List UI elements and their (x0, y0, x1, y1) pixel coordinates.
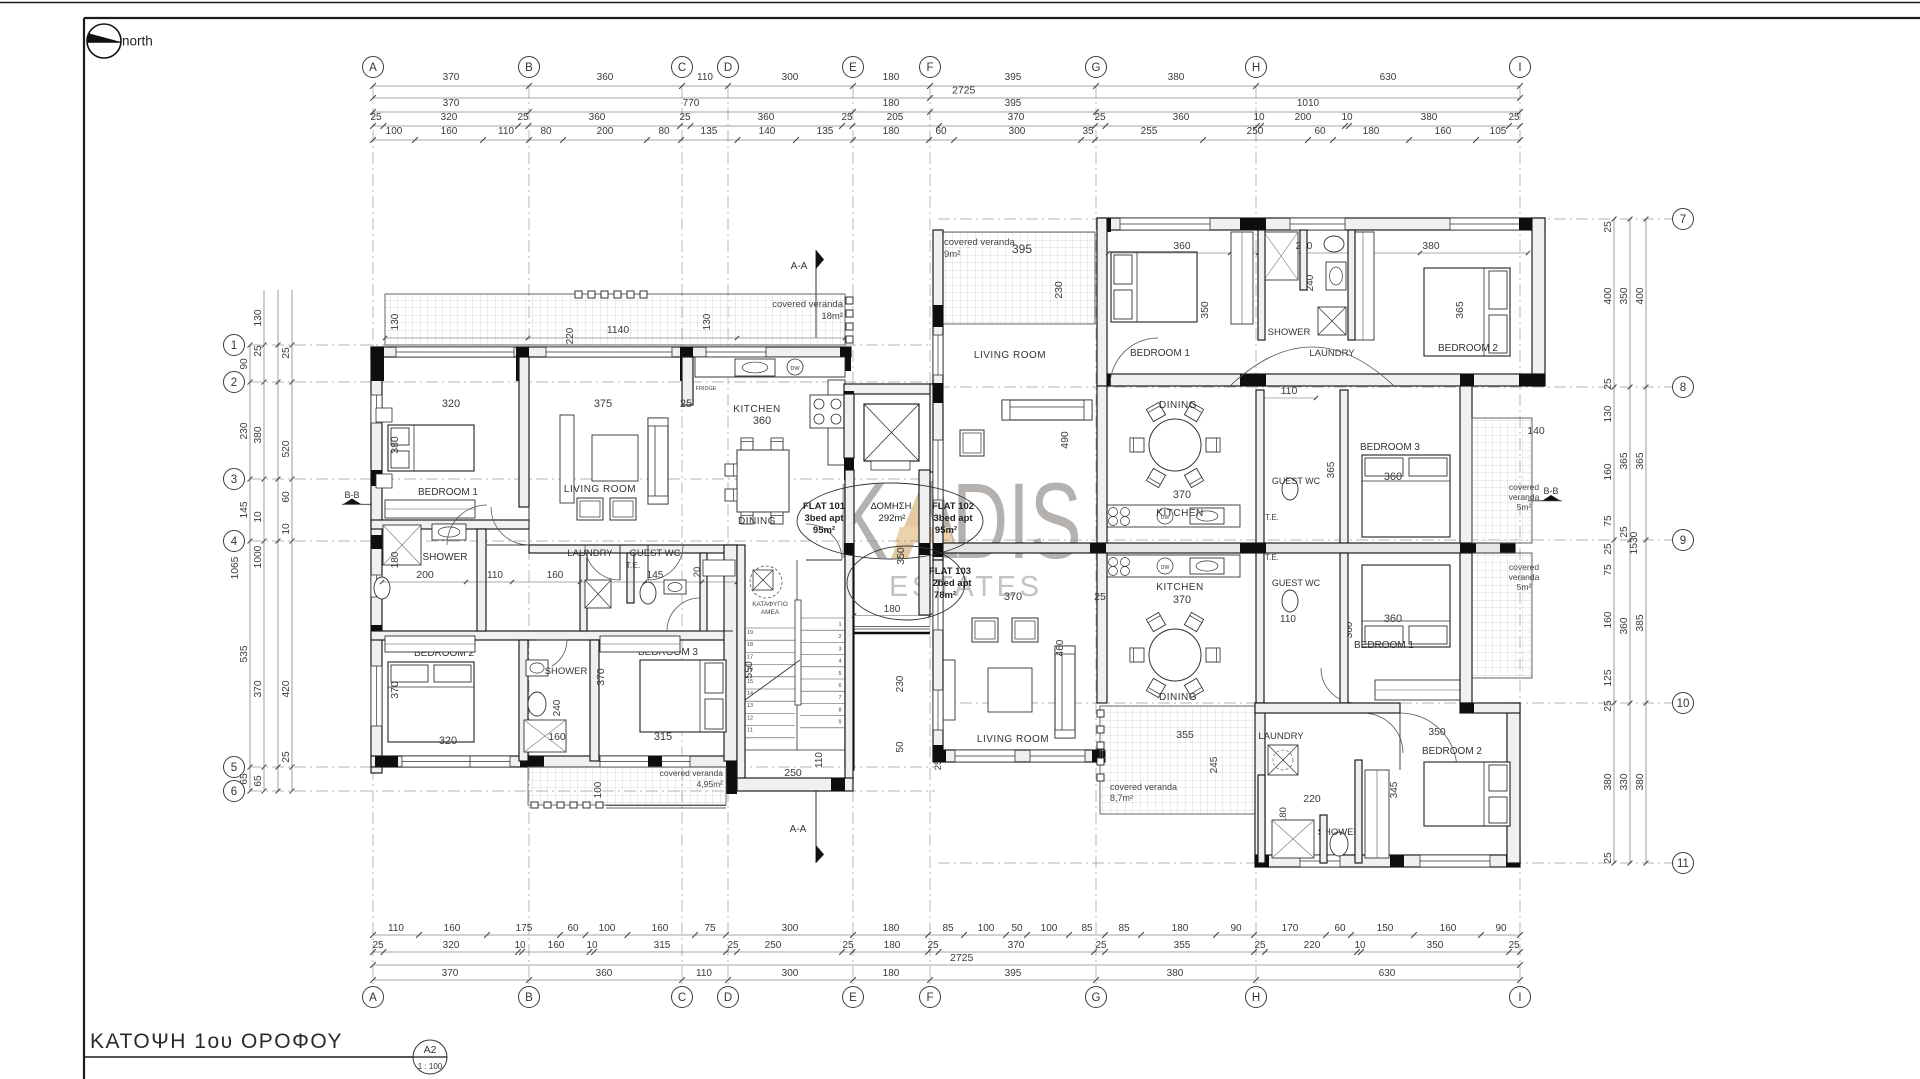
svg-text:veranda: veranda (1509, 572, 1540, 582)
svg-text:2725: 2725 (950, 952, 974, 964)
svg-text:25: 25 (1254, 940, 1266, 951)
svg-text:320: 320 (441, 112, 458, 123)
left flat columns left wall (371, 470, 382, 486)
svg-text:10: 10 (586, 940, 598, 951)
svg-text:6: 6 (838, 683, 841, 689)
bedroom1 side tables (376, 408, 392, 422)
svg-text:2725: 2725 (952, 85, 976, 97)
bottom dimension row 1 (373, 934, 1520, 936)
corridor right wall (919, 470, 930, 615)
svg-text:18m²: 18m² (821, 311, 843, 322)
svg-text:25: 25 (372, 940, 384, 951)
svg-text:360: 360 (1173, 112, 1190, 123)
svg-text:370: 370 (1008, 940, 1025, 951)
svg-text:180: 180 (883, 968, 900, 979)
grid line 6 (250, 790, 935, 792)
svg-text:140: 140 (759, 126, 776, 137)
svg-text:100: 100 (593, 781, 604, 798)
svg-text:ΔΟΜΗΣΗ: ΔΟΜΗΣΗ (870, 501, 911, 512)
guest wc flat102 (1282, 478, 1298, 500)
svg-text:F: F (926, 62, 933, 74)
left flat columns top (371, 347, 384, 381)
svg-text:75: 75 (1603, 515, 1614, 527)
living room armchairs (577, 498, 603, 520)
svg-text:DINING: DINING (738, 516, 776, 527)
svg-text:350: 350 (895, 547, 907, 565)
guest wc cabinet (703, 560, 735, 576)
svg-text:220: 220 (1303, 793, 1321, 805)
svg-text:110: 110 (814, 752, 825, 768)
svg-text:C: C (678, 992, 686, 1004)
wardrobe 2 flat102 (1352, 232, 1374, 340)
top dimension row 4 (373, 125, 1520, 127)
svg-text:1000: 1000 (253, 545, 264, 568)
wall shower/bed2 (477, 529, 486, 631)
svg-text:250: 250 (784, 767, 802, 779)
svg-text:330: 330 (1619, 773, 1630, 790)
svg-text:245: 245 (1209, 756, 1220, 773)
svg-text:GUEST WC: GUEST WC (1272, 578, 1321, 588)
corridor dim line left flat (382, 581, 737, 583)
svg-text:360: 360 (1384, 471, 1402, 483)
left flat ensuite sink (432, 524, 466, 540)
kitchen right counter (828, 380, 845, 465)
svg-text:25: 25 (517, 112, 529, 123)
svg-text:25: 25 (1603, 852, 1614, 864)
svg-text:7: 7 (1680, 214, 1686, 226)
svg-text:B-B: B-B (1543, 486, 1558, 496)
title underline (84, 1056, 446, 1058)
svg-text:10: 10 (514, 940, 526, 951)
svg-text:85: 85 (1081, 923, 1093, 934)
svg-text:160: 160 (652, 923, 669, 934)
kitchen flat102 (1105, 505, 1240, 527)
veranda 8.7 dashes (1097, 710, 1104, 717)
left flat top wall windows (396, 347, 514, 357)
svg-text:10: 10 (1677, 698, 1690, 710)
svg-text:4: 4 (838, 659, 841, 665)
svg-text:KITCHEN: KITCHEN (733, 404, 780, 415)
bedroom1 flat102 bed (1111, 252, 1197, 322)
bottom wing top wall (1255, 703, 1400, 713)
kitchen dw (787, 359, 803, 375)
grid line C (681, 86, 683, 985)
flat103 living bottom wall (933, 750, 1105, 762)
svg-text:350: 350 (1199, 301, 1211, 319)
svg-text:360: 360 (1384, 613, 1402, 625)
svg-text:380: 380 (1603, 773, 1614, 790)
left dimension lines (249, 345, 251, 791)
laundry guestwc walls (580, 553, 587, 631)
svg-text:25: 25 (281, 751, 292, 763)
grid line 3 (250, 478, 935, 480)
svg-text:A: A (369, 992, 377, 1004)
grid line E (852, 86, 854, 985)
flat103 guest wc (1282, 590, 1298, 612)
svg-text:292m²: 292m² (879, 513, 906, 524)
svg-text:FLAT 103: FLAT 103 (929, 566, 971, 577)
svg-text:BEDROOM 2: BEDROOM 2 (1422, 746, 1482, 757)
svg-text:110: 110 (1280, 614, 1296, 625)
svg-text:160: 160 (1603, 463, 1614, 480)
sheet top edge line (0, 2, 1920, 4)
svg-text:350: 350 (1427, 940, 1444, 951)
svg-text:A: A (369, 62, 377, 74)
svg-text:25: 25 (1603, 221, 1614, 233)
svg-text:180: 180 (884, 604, 901, 615)
svg-text:veranda: veranda (1509, 492, 1540, 502)
svg-text:ΑΜΕΑ: ΑΜΕΑ (761, 609, 780, 616)
svg-text:370: 370 (1008, 112, 1025, 123)
grid line I (1519, 86, 1521, 985)
svg-text:550: 550 (743, 661, 755, 679)
flat103 dining (1149, 629, 1201, 681)
svg-text:300: 300 (1009, 126, 1026, 137)
svg-text:LAUNDRY: LAUNDRY (567, 548, 613, 559)
dresser bedroom3 (600, 636, 680, 652)
svg-text:25: 25 (1603, 378, 1614, 390)
wing dim line flat102 (1108, 252, 1528, 254)
svg-text:770: 770 (683, 98, 700, 109)
grid line 11 (938, 862, 1672, 864)
svg-text:25: 25 (253, 345, 264, 357)
svg-text:25: 25 (1094, 591, 1106, 603)
svg-text:25: 25 (1508, 112, 1520, 123)
svg-text:180: 180 (884, 940, 901, 951)
flat103 laundry (1268, 745, 1298, 775)
svg-text:I: I (1518, 62, 1521, 74)
svg-text:12: 12 (747, 715, 753, 721)
svg-text:LIVING ROOM: LIVING ROOM (977, 734, 1049, 745)
grid line 1 (250, 344, 935, 346)
svg-text:DINING: DINING (1159, 692, 1197, 703)
right building veranda 9m2 hatch (936, 232, 1095, 324)
svg-text:370: 370 (389, 681, 401, 699)
svg-text:covered veranda: covered veranda (660, 768, 724, 778)
svg-text:385: 385 (1635, 614, 1646, 631)
svg-text:365: 365 (1326, 461, 1337, 478)
svg-text:130: 130 (1603, 405, 1614, 422)
svg-text:380: 380 (1635, 773, 1646, 790)
svg-text:125: 125 (1603, 669, 1614, 686)
svg-text:360: 360 (1619, 617, 1630, 634)
svg-text:90: 90 (239, 358, 250, 370)
svg-text:25: 25 (842, 940, 854, 951)
svg-text:420: 420 (281, 680, 292, 697)
svg-text:1010: 1010 (1297, 98, 1320, 109)
svg-text:80: 80 (540, 126, 552, 137)
svg-text:230: 230 (895, 675, 906, 692)
left flat left wall windows (371, 395, 382, 423)
svg-text:160: 160 (547, 570, 564, 581)
dresser bedroom2 (385, 636, 475, 652)
svg-text:25: 25 (1603, 700, 1614, 712)
stair landing (745, 749, 845, 751)
svg-text:370: 370 (442, 968, 459, 979)
svg-text:380: 380 (389, 436, 401, 454)
svg-text:135: 135 (817, 126, 834, 137)
svg-text:65: 65 (253, 775, 264, 787)
left flat left wall (371, 347, 382, 773)
svg-text:BEDROOM 1: BEDROOM 1 (418, 487, 478, 498)
svg-text:370: 370 (1173, 489, 1191, 501)
svg-text:14: 14 (747, 691, 753, 697)
svg-text:360: 360 (589, 112, 606, 123)
svg-text:25: 25 (1095, 940, 1107, 951)
svg-text:3bed apt: 3bed apt (804, 513, 844, 524)
elevator cab (864, 404, 919, 461)
svg-text:220: 220 (565, 327, 576, 344)
svg-text:BEDROOM 1: BEDROOM 1 (1130, 348, 1190, 359)
stair core walls (737, 545, 745, 780)
bottom dimension row 4 (373, 979, 1520, 981)
svg-text:1: 1 (231, 340, 237, 352)
svg-text:300: 300 (782, 968, 799, 979)
bottom wing right wall (1507, 703, 1520, 863)
left veranda dashed squares top (575, 291, 582, 298)
svg-text:160: 160 (548, 731, 566, 743)
svg-text:25: 25 (679, 112, 691, 123)
svg-text:covered veranda: covered veranda (772, 299, 843, 310)
interior wall bedroom1 lower (371, 520, 529, 529)
svg-text:11: 11 (1677, 858, 1689, 870)
svg-text:13: 13 (747, 703, 753, 709)
svg-text:SHOWER: SHOWER (423, 552, 468, 563)
svg-text:175: 175 (516, 923, 533, 934)
veranda 8.7 hatch (1100, 706, 1255, 814)
svg-text:75: 75 (1603, 564, 1614, 576)
svg-text:95m²: 95m² (935, 525, 957, 536)
svg-text:E: E (849, 62, 857, 74)
svg-text:GUEST WC: GUEST WC (629, 548, 680, 559)
svg-text:20: 20 (692, 567, 703, 578)
svg-text:370: 370 (595, 668, 607, 686)
grid line D (727, 86, 729, 985)
svg-text:I: I (1518, 992, 1521, 1004)
dining flat102 (1149, 419, 1201, 471)
svg-text:255: 255 (1141, 126, 1158, 137)
svg-text:360: 360 (1173, 241, 1190, 252)
svg-text:E: E (849, 992, 857, 1004)
svg-text:3bed apt: 3bed apt (933, 513, 973, 524)
svg-text:DW: DW (790, 366, 800, 372)
doors left flat (491, 507, 529, 545)
left flat columns bottom (375, 756, 398, 767)
kitchen sink (735, 359, 775, 376)
bedroom2 flat102 bed (1424, 268, 1510, 356)
svg-text:1065: 1065 (230, 556, 241, 579)
svg-text:350: 350 (1428, 727, 1445, 738)
kitchen counter (695, 357, 845, 377)
svg-text:B: B (525, 62, 533, 74)
flat 103 label balloon (847, 546, 965, 620)
right building left wall upper (933, 230, 943, 560)
svg-text:25: 25 (370, 112, 382, 123)
svg-text:KITCHEN: KITCHEN (1156, 508, 1203, 519)
svg-text:365: 365 (1454, 301, 1466, 319)
svg-text:315: 315 (654, 940, 671, 951)
svg-text:50: 50 (895, 741, 906, 753)
left flat top wall (371, 347, 851, 357)
grid bubbles bottom (363, 987, 384, 1008)
svg-text:130: 130 (253, 309, 264, 326)
flat103 wardrobe (1365, 770, 1389, 858)
svg-text:A-A: A-A (790, 824, 807, 835)
flat103 bottom wing dividers (1258, 775, 1265, 863)
bottom wing walls (1255, 703, 1265, 863)
flat102 wing bottom wall (1097, 374, 1545, 386)
svg-text:50: 50 (1011, 923, 1023, 934)
svg-text:200: 200 (416, 569, 434, 581)
kitchen stove (810, 395, 845, 428)
svg-text:18: 18 (747, 642, 753, 648)
svg-text:10: 10 (253, 511, 264, 523)
svg-text:ΚΑΤΑΦΥΓΙΟ: ΚΑΤΑΦΥΓΙΟ (752, 601, 788, 608)
svg-text:G: G (1092, 992, 1101, 1004)
svg-text:200: 200 (1295, 112, 1312, 123)
svg-text:LIVING ROOM: LIVING ROOM (974, 350, 1046, 361)
svg-text:F: F (926, 992, 933, 1004)
svg-text:95m²: 95m² (813, 525, 835, 536)
svg-text:355: 355 (1176, 729, 1194, 741)
KADIS ESTATES watermark (836, 460, 1082, 603)
svg-text:100: 100 (1041, 923, 1058, 934)
flat 101 label balloon (797, 483, 983, 559)
top dimension row 5 (373, 139, 1520, 141)
left flat top veranda hatch (385, 294, 845, 345)
svg-text:DW: DW (1161, 565, 1170, 571)
svg-text:8: 8 (1680, 382, 1686, 394)
svg-text:A-A: A-A (791, 261, 808, 272)
bedroom3 flat102 (1362, 455, 1450, 537)
svg-text:630: 630 (1380, 72, 1397, 83)
grid line 4 (250, 540, 935, 542)
svg-text:170: 170 (1282, 923, 1299, 934)
svg-text:240: 240 (552, 699, 563, 716)
svg-text:25: 25 (680, 398, 692, 410)
sheet frame border (84, 17, 1920, 19)
svg-text:380: 380 (1422, 241, 1439, 252)
svg-text:395: 395 (1005, 72, 1022, 83)
svg-text:3: 3 (231, 474, 237, 486)
flat103 bedroom1 (1362, 565, 1450, 647)
bed bedroom3 (640, 660, 726, 732)
svg-text:160: 160 (1603, 611, 1614, 628)
left flat bottom wall windows (402, 756, 472, 767)
svg-text:180: 180 (390, 551, 401, 568)
corridor walls left flat (529, 545, 737, 553)
svg-text:535: 535 (239, 645, 250, 662)
svg-text:150: 150 (1377, 923, 1394, 934)
svg-text:160: 160 (444, 923, 461, 934)
grid line A (372, 86, 374, 985)
svg-text:365: 365 (1635, 452, 1646, 469)
dresser bedroom1 (385, 500, 475, 518)
stair core right wall (845, 470, 854, 770)
svg-text:200: 200 (597, 126, 614, 137)
svg-text:100: 100 (599, 923, 616, 934)
svg-text:160: 160 (441, 126, 458, 137)
svg-text:180: 180 (883, 72, 900, 83)
svg-text:2: 2 (838, 634, 841, 640)
svg-text:355: 355 (1174, 940, 1191, 951)
svg-text:110: 110 (388, 923, 404, 934)
svg-text:130: 130 (702, 313, 713, 330)
svg-text:75: 75 (704, 923, 716, 934)
svg-text:230: 230 (1053, 281, 1065, 299)
svg-text:90: 90 (1230, 923, 1242, 934)
svg-text:520: 520 (281, 440, 292, 457)
elevator shaft walls (844, 384, 940, 394)
svg-text:35: 35 (1082, 126, 1094, 137)
svg-text:400: 400 (1603, 287, 1614, 304)
laundry flat102 (1318, 307, 1346, 335)
svg-text:FLAT 101: FLAT 101 (803, 501, 846, 512)
svg-text:395: 395 (1012, 242, 1032, 256)
svg-text:BEDROOM 1: BEDROOM 1 (1354, 640, 1414, 651)
svg-text:365: 365 (1619, 452, 1630, 469)
flat103 dividers (1256, 553, 1264, 703)
laundry washer (585, 580, 611, 608)
svg-text:250: 250 (1247, 126, 1264, 137)
svg-text:85: 85 (942, 923, 954, 934)
svg-text:10: 10 (1354, 940, 1366, 951)
bottom veranda hatch left flat (528, 767, 726, 805)
svg-text:ΚΑΤΟΨΗ 1ου ΟΡΟΦΟΥ: ΚΑΤΟΨΗ 1ου ΟΡΟΦΟΥ (90, 1030, 343, 1053)
svg-text:covered: covered (1509, 482, 1540, 492)
svg-text:SHOWER: SHOWER (545, 666, 588, 677)
svg-text:180: 180 (883, 126, 900, 137)
svg-text:25: 25 (1603, 543, 1614, 555)
svg-text:160: 160 (1440, 923, 1457, 934)
svg-text:10: 10 (1341, 112, 1353, 123)
right dimension lines (1613, 219, 1615, 863)
svg-text:25: 25 (727, 940, 739, 951)
svg-text:220: 220 (1304, 940, 1321, 951)
svg-text:60: 60 (1314, 126, 1326, 137)
svg-text:360: 360 (597, 72, 614, 83)
svg-text:SHOWER: SHOWER (1268, 327, 1311, 338)
flat103 kitchen (1105, 555, 1240, 577)
left flat ensuite toilet (374, 577, 390, 599)
flat103 bedroom2 (1424, 762, 1510, 826)
svg-text:110: 110 (498, 126, 514, 137)
elevator door (871, 461, 910, 470)
left flat bottom wall (371, 756, 737, 767)
mid shower walls (519, 640, 528, 761)
top dimension row 3 (373, 111, 1520, 113)
living room sofa (648, 418, 668, 504)
refuge area (750, 566, 782, 598)
svg-text:395: 395 (1005, 98, 1022, 109)
flat103 shower (1272, 820, 1314, 858)
svg-text:LAUNDRY: LAUNDRY (1258, 731, 1304, 742)
top dimension row 1 (373, 85, 1520, 87)
svg-text:G: G (1092, 62, 1101, 74)
svg-text:160: 160 (548, 940, 565, 951)
svg-text:1: 1 (838, 622, 841, 628)
svg-text:395: 395 (1005, 968, 1022, 979)
bottom veranda dashed squares (531, 802, 538, 808)
svg-text:25: 25 (1094, 112, 1106, 123)
shower partition walls flat102 (1258, 230, 1265, 340)
grid bubbles top (363, 57, 384, 78)
svg-text:9m²: 9m² (944, 249, 960, 260)
svg-text:1530: 1530 (1629, 531, 1640, 554)
scale bubble A2 1:100 (413, 1040, 447, 1074)
svg-text:3: 3 (838, 646, 841, 652)
grid line 7 (938, 218, 1672, 220)
